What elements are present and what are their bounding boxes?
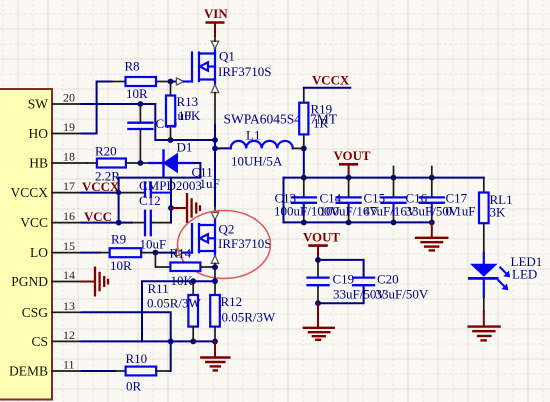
svg-text:R13: R13 [177,94,199,109]
wire DEMB to R10 [82,370,116,372]
capacitor C19 [308,260,387,303]
node L1 left [212,146,218,152]
Q2 gate pin direction arrow [176,249,183,256]
ground (rotated) at PGND pin 14 [82,268,109,296]
pin 17 VCCX [10,179,81,200]
wire CS sense row [142,281,215,341]
inductor L1 SWPA6045S4R7MT [215,112,338,169]
svg-text:R19: R19 [311,102,333,117]
wire to Q1 gate arrow [171,81,177,83]
svg-text:CSG: CSG [22,305,49,320]
node R9/R14/gate Q2 [153,250,159,256]
node VCC/VCCX [116,220,122,226]
capacitor C14 [320,178,380,223]
resistor R13 [166,82,201,141]
ground (rotated) at C12 [171,194,200,222]
wire LO to R9 [82,252,100,254]
IC connector block J1 [0,89,52,400]
svg-text:0R: 0R [126,379,142,394]
wire C19/C20 box [318,260,364,277]
svg-text:1R: 1R [313,116,329,131]
capacitor C20 [353,272,429,302]
svg-text:HO: HO [29,126,49,141]
Q1 source pin arrow [211,85,218,93]
Q1 gate pin direction arrow [176,78,183,85]
node CSG join [168,339,174,345]
node R20/C10/D1 [138,160,144,166]
node SW/R13 [168,137,174,143]
pin 11 DEMB [9,358,82,379]
svg-text:IRF3710S: IRF3710S [218,64,271,79]
capacitor C12 [132,193,171,252]
pin 16 VCC [20,209,81,230]
svg-text:HB: HB [29,156,48,171]
wire Q1 source down to Q2 drain [214,93,216,125]
svg-text:0.05R/3W: 0.05R/3W [222,310,277,325]
svg-text:10uF: 10uF [140,237,167,252]
ground below cap bank [416,222,447,250]
wire pin17 to C11 [82,192,120,194]
svg-text:19: 19 [63,120,75,134]
node Q2 source/R14 [212,264,218,270]
svg-text:C19: C19 [333,272,355,287]
svg-text:L1: L1 [246,128,260,143]
wire cap bank left side [283,178,285,223]
node L1 right / R19 [301,146,307,152]
pin stub above rail C16 [431,167,433,178]
pin 13 CSG [22,299,82,320]
node R8/R13/gate Q1 [168,79,174,85]
svg-text:20: 20 [63,91,75,105]
node VCCX/pin17 [116,190,121,195]
wire to Q2 gate arrow [155,252,176,254]
wire R9 node down to R14 [155,253,170,267]
LED1 [469,253,542,297]
node SW/C10 [138,101,144,107]
svg-text:13: 13 [63,299,75,313]
power symbol VOUT lower [303,231,340,260]
svg-text:C12: C12 [139,193,161,208]
svg-text:VOUT: VOUT [303,231,340,245]
power symbol VIN [204,7,228,41]
svg-text:LED: LED [512,267,537,282]
svg-text:10R: 10R [126,86,148,101]
resistor R8 [112,59,171,102]
ground below C19 [304,303,334,340]
rail nodes top [301,175,307,181]
svg-text:R10: R10 [126,351,148,366]
svg-text:0.1uF: 0.1uF [446,204,476,219]
transistor Q2 IRF3710S [192,220,215,255]
svg-text:2.2R: 2.2R [95,169,120,184]
wire pin16 VCC [82,222,133,224]
node R12 bottom / ground [212,339,218,345]
node ground tap [168,205,174,211]
power symbol VOUT top [334,149,371,178]
Q2 drain pin arrow [211,212,218,220]
svg-text:VCC: VCC [20,215,48,230]
wire VOUT rail [284,177,484,179]
svg-text:18: 18 [63,150,75,164]
capacitor C16 [406,178,459,223]
svg-text:R9: R9 [111,232,126,247]
wire / net label VCCX top [304,87,351,89]
svg-text:PGND: PGND [11,274,48,289]
wire HB to R20 [87,162,97,164]
svg-text:DEMB: DEMB [9,364,48,379]
svg-text:R20: R20 [95,144,117,159]
Q1 drain pin arrow [211,41,218,48]
svg-text:Q2: Q2 [219,222,235,237]
svg-text:CS: CS [31,334,48,349]
svg-text:IRF3710S: IRF3710S [218,236,271,251]
wire VCCX vertical to VCC pin [118,178,120,223]
pin 15 LO [30,239,82,260]
wire C11/C12 right vertical [170,178,172,223]
capacitor C15 [364,178,417,223]
svg-text:R8: R8 [125,59,140,74]
node Q2 source/CS [212,278,218,284]
svg-text:VIN: VIN [204,7,228,21]
svg-text:LO: LO [30,245,48,260]
resistor R19 [299,88,332,149]
resistor R20 [95,144,140,184]
svg-text:R12: R12 [221,294,243,309]
wire R10 up to CS net [170,341,172,371]
resistor RL1 [479,178,513,253]
node C19 bottom [315,300,321,306]
svg-text:VCCX: VCCX [312,74,350,88]
resistor R10 [116,351,171,394]
svg-text:12: 12 [63,328,75,342]
svg-text:17: 17 [63,179,75,193]
capacitor C10 [128,104,191,163]
annotation ellipse around Q2 [178,211,271,279]
capacitor C13 [274,178,340,223]
pin 14 PGND [11,268,81,289]
svg-text:33uF/50V: 33uF/50V [376,287,429,302]
wire cap bank bottom rail [284,221,434,223]
node SW/Q1 source [212,137,218,143]
node R11 bottom [190,339,196,345]
svg-text:10UH/5A: 10UH/5A [231,154,283,169]
svg-text:16: 16 [63,209,75,223]
svg-text:SW: SW [28,97,49,112]
svg-text:10K: 10K [178,108,201,123]
svg-text:0.05R/3W: 0.05R/3W [147,296,202,311]
wire SW net [82,104,216,140]
svg-text:10R: 10R [110,258,132,273]
svg-text:14: 14 [63,268,75,282]
wire D1 anode to VCCX net [119,163,201,178]
pin 18 HB [29,150,87,171]
resistor R9 [100,232,156,274]
wire CSG pin 13 [82,312,171,341]
diode D1 CMPD2003 [139,140,202,194]
svg-text:VOUT: VOUT [334,149,371,163]
svg-text:VCCX: VCCX [10,185,48,200]
wire CS pin 12 [82,340,216,342]
resistor R14 [170,246,216,289]
wire LED to ground [483,297,485,312]
rail nodes bottom [301,220,307,226]
node C19 top [315,257,321,263]
pin 12 CS [31,328,81,349]
resistor R12 [210,294,276,341]
pin 20 SW [28,91,82,112]
pin stub above rail C15 [393,167,395,178]
wire Q2 source vertical [214,263,216,295]
transistor Q1 IRF3710S [192,49,215,85]
svg-text:C20: C20 [377,272,399,287]
node R11 top [190,278,196,284]
wire L1 right down to VOUT rail [303,148,305,177]
svg-text:R14: R14 [170,246,192,261]
svg-text:Q1: Q1 [219,49,235,64]
svg-text:1uF: 1uF [200,176,220,191]
resistor R11 [147,281,202,341]
Q2 source pin arrow [211,255,218,263]
ground below LED [469,311,500,340]
pin 19 HO [29,120,82,141]
svg-text:3K: 3K [490,205,507,220]
wire HO to R8 [82,82,112,134]
svg-text:D1: D1 [177,140,193,155]
svg-text:15: 15 [63,239,75,253]
capacitor C11 [145,165,220,197]
ground below R12 [201,341,229,370]
svg-text:R11: R11 [148,281,169,296]
svg-text:11: 11 [63,358,75,372]
